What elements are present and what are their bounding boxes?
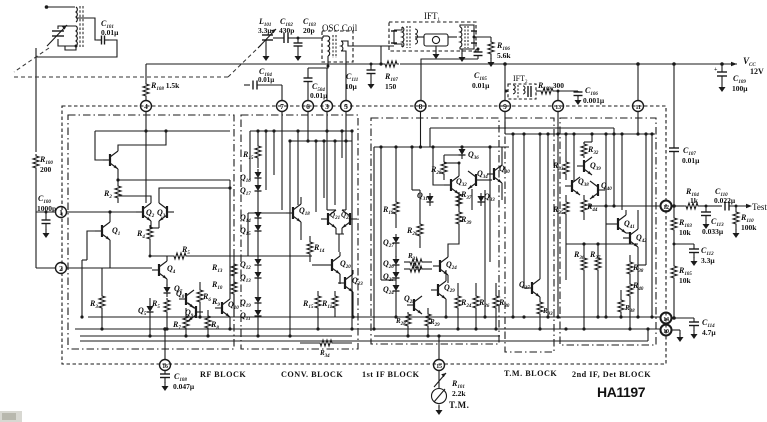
Q23 wires — [340, 270, 355, 319]
transistor Q11 — [103, 151, 118, 169]
svg-text:15: 15 — [436, 364, 442, 370]
diode Q19 — [257, 282, 259, 294]
svg-text:3.3μ: 3.3μ — [258, 26, 272, 35]
2ndIF vertical h2 — [590, 132, 593, 142]
CONV vertical wire b — [296, 129, 299, 205]
R5b label — [151, 299, 160, 310]
IC package dashed outline — [62, 106, 666, 364]
svg-text:100μ: 100μ — [732, 84, 748, 93]
junction at x638 — [636, 62, 640, 100]
Q32 label — [456, 177, 467, 188]
Q41 transistor — [611, 215, 626, 233]
svg-text:0.033μ: 0.033μ — [702, 227, 724, 236]
Q42 label — [636, 233, 647, 244]
2nd IF Det block border — [560, 118, 656, 345]
R33 label — [552, 161, 564, 172]
Q32 transistor — [444, 176, 459, 194]
CONV second rail — [290, 140, 352, 142]
C114 4.7u cap — [689, 318, 699, 339]
C113 label — [702, 217, 724, 236]
R35 label — [552, 205, 564, 216]
1stIF left vertical — [372, 147, 375, 331]
svg-text:0.001μ: 0.001μ — [583, 96, 605, 105]
Q21 Q22 emitter join — [336, 228, 344, 252]
R24 label — [460, 298, 472, 309]
R108 1.5k resistor — [143, 64, 149, 100]
R37b label — [589, 250, 601, 261]
C101 label — [101, 19, 119, 37]
pin 5 — [341, 101, 352, 112]
pin 1 wire to Q2 base — [67, 211, 137, 213]
wire pin13 to R109 — [557, 90, 560, 101]
R13 resistor — [231, 262, 237, 280]
R26 label — [406, 226, 418, 237]
Q4 label — [167, 264, 176, 275]
R15 label — [242, 150, 254, 161]
2ndIF vertical h6 — [572, 132, 575, 182]
Q26b label — [383, 285, 394, 296]
Q25 label — [383, 272, 394, 283]
OSC Coil label — [322, 23, 358, 33]
C112 label — [701, 246, 715, 265]
CONV vertical wire i — [340, 129, 343, 158]
antenna coil T1 secondary — [76, 26, 77, 46]
R15 resistor top — [255, 131, 261, 168]
wire OSC coil bottom to pin3 — [327, 56, 328, 100]
svg-text:+: + — [714, 67, 718, 73]
tank circuit wires — [58, 26, 76, 46]
Q26b bottom wire — [394, 295, 397, 319]
R34 resistor horizontal — [300, 340, 352, 346]
R106 label — [496, 41, 511, 60]
Q9 transistor — [188, 303, 203, 321]
IFT1 right core — [465, 26, 468, 48]
RF right rail wire — [228, 180, 231, 190]
chain wire segment — [257, 195, 259, 209]
pin 2 wire — [67, 267, 153, 269]
1stIF vertical j — [410, 145, 420, 190]
antenna input wire — [45, 5, 75, 9]
OSC coil secondary winding — [341, 41, 343, 51]
Q1 emitter wire — [102, 240, 110, 268]
wire pin2 left — [36, 267, 55, 269]
R32 label — [587, 145, 599, 156]
R26c label — [478, 298, 490, 309]
pin7 drop wire — [281, 112, 283, 211]
Q42 transistor — [623, 229, 638, 247]
pin 10 — [661, 325, 672, 336]
IFT2 label — [513, 74, 528, 85]
C113 0.033u cap — [701, 206, 711, 229]
svg-text:150: 150 — [385, 82, 397, 91]
diode Q12 — [255, 256, 262, 269]
R11 resistor — [332, 291, 338, 317]
R40 resistor — [627, 282, 633, 331]
IFT1 right cap — [460, 25, 477, 49]
Q11b label — [240, 311, 251, 322]
Q2Q3 emitter join and R4 — [147, 221, 159, 256]
Q29 wires — [444, 270, 447, 319]
svg-text:20p: 20p — [303, 26, 315, 35]
svg-text:4.7μ: 4.7μ — [702, 328, 716, 337]
pin9 drop wire — [504, 112, 506, 135]
C107 label — [682, 146, 700, 165]
Q27 label — [383, 238, 394, 249]
R35 resistor — [563, 195, 569, 280]
OSC coil core — [333, 35, 336, 58]
T.M. block border — [505, 118, 554, 352]
Q25 diode — [393, 269, 400, 282]
pin 4 — [141, 101, 152, 112]
svg-text:3.3μ: 3.3μ — [701, 256, 715, 265]
bus wire to pin 10 — [75, 329, 661, 330]
bus junction dots — [100, 315, 567, 337]
svg-text:0.01μ: 0.01μ — [101, 28, 119, 37]
C108 label — [173, 372, 195, 391]
pin 13 — [553, 101, 564, 112]
Q2 collector wire — [118, 196, 151, 203]
Q3 collector wire — [159, 188, 230, 203]
R31 R33 labels — [407, 252, 422, 272]
R13 R10 R9 labels — [211, 263, 223, 308]
meter ground — [436, 405, 443, 416]
svg-text:200: 200 — [40, 165, 52, 174]
R105 label — [678, 266, 692, 285]
Q1 base wire — [82, 231, 95, 260]
oscillator variable capacitor VC2 — [258, 29, 276, 48]
IFT1 left primary winding — [394, 27, 404, 47]
R30 label — [498, 298, 510, 309]
svg-text:0.01μ: 0.01μ — [310, 91, 328, 100]
pin11 drop wire — [636, 112, 639, 136]
C108 0.047u cap — [160, 370, 170, 391]
C109 100u cap — [714, 62, 727, 92]
TM vertical 3 — [538, 132, 541, 279]
R8 resistor — [205, 310, 211, 336]
Q26 diode — [393, 256, 400, 269]
IFT1 left core — [407, 26, 410, 48]
R93 resistor — [537, 297, 543, 331]
ceramic filter CF1 — [415, 34, 457, 59]
1st IF block border — [371, 118, 499, 344]
diode Q14 — [255, 209, 262, 222]
pin 11 — [633, 101, 644, 112]
R29 resistor — [425, 308, 431, 336]
R24 resistor — [455, 283, 461, 331]
R7 label — [172, 320, 181, 331]
bottom left corner artifact — [0, 411, 22, 422]
pin16 riser — [163, 327, 167, 359]
1stIF vertical g — [488, 145, 491, 262]
Q31 diode — [427, 193, 434, 206]
CONV vertical wire d — [333, 139, 336, 205]
RF inner bus wire — [80, 335, 352, 337]
wire C102 to OSC coil — [298, 37, 323, 39]
C109 label — [732, 74, 748, 93]
R5 wire and resistor — [149, 253, 313, 259]
wire C101 to ground loop — [36, 40, 117, 57]
R101 2.2k variable resistor — [434, 370, 446, 388]
R33 second resistor — [404, 266, 432, 272]
capacitor C103 shunt — [294, 37, 303, 62]
R36 label — [573, 250, 585, 261]
CONV vertical wire g — [272, 129, 275, 175]
Q24 wires — [447, 248, 449, 283]
1stIF vertical k — [483, 190, 486, 319]
R106 5.6k resistor — [488, 37, 495, 67]
Q38 transistor — [565, 177, 580, 195]
pin 14 external wire — [672, 316, 695, 320]
Q36 label — [468, 150, 479, 161]
antenna coil T1 primary — [76, 7, 77, 22]
Q41 Q42 wires — [606, 210, 640, 319]
diode Q17 — [255, 182, 262, 195]
pin6 drop wire — [306, 112, 309, 143]
Q23 label — [352, 276, 363, 287]
IFT1 label — [424, 11, 441, 23]
2ndIF vertical h1 — [564, 132, 567, 160]
CONV vertical wire e — [350, 129, 353, 330]
svg-text:10k: 10k — [679, 228, 692, 237]
C110 label — [714, 187, 736, 205]
R38 resistor — [627, 255, 633, 282]
pin8 drop wire — [420, 112, 422, 148]
Q29 transistor — [431, 281, 446, 299]
Q17 label — [240, 186, 251, 197]
pin 12 — [661, 201, 672, 212]
Q23 transistor — [338, 274, 353, 292]
Q18 wires — [248, 197, 301, 256]
Q34 transistor — [468, 171, 483, 189]
R103 label — [678, 218, 692, 237]
R39 resistor — [448, 210, 462, 248]
chain bottom wire — [256, 320, 259, 338]
wire secondary bottom junction — [65, 45, 78, 51]
pin15 riser — [380, 336, 439, 360]
svg-text:2nd IF, Det BLOCK: 2nd IF, Det BLOCK — [572, 370, 651, 379]
common ground bus wire — [80, 327, 650, 341]
R34 label — [319, 349, 330, 359]
R28b resistor — [405, 312, 411, 336]
Q34 label — [477, 169, 488, 180]
svg-text:0.01μ: 0.01μ — [682, 156, 700, 165]
Q10 label — [228, 300, 239, 311]
CONV vertical wire h — [322, 139, 325, 198]
R31 R33 resistors — [404, 259, 432, 265]
R38 label — [632, 263, 644, 274]
Q40 transistor — [590, 181, 605, 199]
TM vertical 2 — [522, 132, 525, 288]
C104 label — [258, 67, 274, 84]
svg-text:0.01μ: 0.01μ — [472, 81, 490, 90]
C102 430p label — [279, 17, 294, 35]
Q12 label — [240, 260, 251, 271]
svg-text:0.022μ: 0.022μ — [714, 196, 736, 205]
R107 label — [384, 72, 398, 91]
capacitor C102 series — [273, 33, 298, 43]
svg-text:Test: Test — [752, 202, 767, 212]
R110 label — [740, 213, 757, 232]
diode Q15 — [255, 222, 262, 235]
RF block border — [68, 115, 234, 349]
2ndIF vertical h5 — [650, 132, 653, 318]
R105 10k resistor lower — [671, 244, 677, 318]
pin 6 — [303, 101, 314, 112]
Q30 transistor — [487, 165, 502, 183]
detector wire from pin12 — [588, 204, 660, 207]
diode Q11b — [255, 307, 262, 320]
pin3 drop wire — [325, 112, 336, 211]
R19 resistor — [393, 145, 399, 228]
IFT1 output wire — [473, 36, 492, 39]
R108 label — [150, 81, 180, 92]
R28 label — [430, 165, 442, 176]
pin5 drop wire — [342, 112, 348, 211]
IFT1 left cap — [391, 30, 397, 44]
RF rail drop left — [94, 131, 96, 155]
R28b label — [395, 317, 406, 327]
Q37 label — [519, 280, 530, 291]
Q27 to Q26 wire — [395, 247, 397, 257]
Q33 label — [484, 192, 495, 203]
OSC coil primary winding — [323, 36, 330, 56]
Q26 label — [383, 259, 394, 270]
pin 14 — [661, 313, 672, 324]
Q1 transistor — [95, 222, 110, 240]
TM vertical 4 — [546, 132, 549, 318]
R28 resistor — [441, 155, 462, 180]
TM-2ndIF top rail — [505, 133, 655, 135]
Q39 transistor — [577, 157, 592, 175]
coupling cap to pin 8 — [421, 48, 483, 101]
diode Q13 — [255, 269, 262, 282]
Q21 Q22 transistor pair — [321, 210, 336, 228]
IFT1 left secondary winding — [415, 29, 418, 44]
variable capacitor VC1 — [47, 25, 67, 46]
Q15 label — [240, 226, 251, 237]
pin 7 — [277, 101, 288, 112]
svg-text:1000p: 1000p — [37, 204, 56, 213]
R109 label — [537, 81, 564, 92]
Q33 diode — [478, 193, 485, 206]
pin 1 — [56, 207, 67, 218]
Q41 label — [624, 219, 635, 230]
RF left vertical wires — [80, 260, 83, 319]
Q11 emitter wire — [116, 169, 230, 182]
Q20 wires — [312, 252, 340, 284]
diode Q16 — [255, 169, 262, 182]
Q10 transistor — [215, 299, 230, 317]
Q18 transistor — [286, 204, 301, 222]
Q39 label — [590, 161, 601, 172]
Q24 transistor — [433, 257, 448, 275]
Q2 Q3 labels — [146, 208, 166, 219]
svg-text:HA1197: HA1197 — [597, 384, 646, 400]
R14 label — [313, 243, 325, 254]
Q21 Q22 labels — [330, 211, 352, 221]
C104 0.01u cap on pin7 wire — [244, 81, 282, 101]
2ndIF vertical h9 — [556, 134, 559, 319]
Q28 transistor — [407, 296, 422, 314]
pin 10 external ground — [672, 330, 684, 342]
Q9 label — [185, 308, 194, 319]
Q37 transistor — [525, 279, 540, 297]
C110 0.022u cap — [705, 202, 753, 211]
R6 resistor — [197, 282, 203, 317]
R15b label — [302, 299, 314, 310]
svg-text:5.6k: 5.6k — [497, 51, 511, 60]
Q38 label — [578, 177, 589, 188]
2ndIF vertical h7 — [612, 132, 615, 207]
R10 resistor — [231, 256, 237, 317]
Q16 label — [240, 173, 251, 184]
CONV vertical wire c — [314, 139, 317, 212]
Q10 wires — [229, 188, 231, 329]
IFT1 input wire — [348, 45, 394, 47]
1st IF bus wire — [374, 335, 500, 337]
svg-text:10k: 10k — [679, 276, 692, 285]
R100 label — [39, 155, 53, 174]
pin 2 — [56, 263, 67, 274]
R5b resistor — [164, 298, 170, 331]
R93 label — [542, 307, 553, 317]
R3 label — [89, 299, 98, 310]
Q4 collector emitter wires — [166, 256, 168, 286]
resistor R2 — [115, 180, 121, 203]
Q8 label — [176, 289, 185, 300]
R109 300 resistor — [536, 88, 578, 94]
C105 label — [472, 71, 490, 90]
svg-text:12V: 12V — [750, 67, 764, 76]
C504 label — [310, 82, 328, 100]
Q5 wires — [148, 298, 151, 338]
Q5 diode — [147, 303, 154, 316]
R101 label — [451, 379, 466, 398]
pin13 drop wire — [556, 112, 559, 136]
Q14 label — [240, 213, 251, 224]
R33 resistor — [563, 160, 569, 180]
C103 20p label — [303, 17, 316, 35]
C114 label — [702, 318, 716, 337]
wire left rail down from antenna — [35, 57, 37, 152]
R44 label — [586, 202, 598, 213]
Q7 label — [174, 284, 183, 295]
R26c resistor — [473, 283, 479, 331]
svg-text:16: 16 — [162, 364, 168, 370]
R2 label — [103, 189, 112, 200]
svg-text:T.M. BLOCK: T.M. BLOCK — [504, 369, 557, 378]
1stIF mid verticals — [431, 145, 434, 180]
TM vertical 1 — [511, 132, 514, 318]
Q36 diode — [459, 146, 466, 159]
Q5 label — [138, 306, 147, 317]
Q40 label — [601, 181, 612, 192]
pin4 feed wire — [145, 112, 147, 204]
bias row wire — [566, 242, 638, 245]
wire pin1 left with C102 1000p — [36, 211, 55, 239]
C100 1000p label — [37, 194, 56, 213]
Q24 label — [446, 260, 457, 271]
IFT1 secondary ground — [459, 49, 466, 62]
R8 label — [210, 320, 219, 331]
Q8 transistor — [179, 290, 194, 308]
RF top rail — [95, 129, 230, 132]
pin 8 — [415, 101, 426, 112]
Q31 label — [417, 191, 428, 202]
T.M. label — [449, 400, 469, 410]
2ndIF vertical h8 — [638, 132, 648, 265]
svg-text:430p: 430p — [279, 26, 294, 35]
